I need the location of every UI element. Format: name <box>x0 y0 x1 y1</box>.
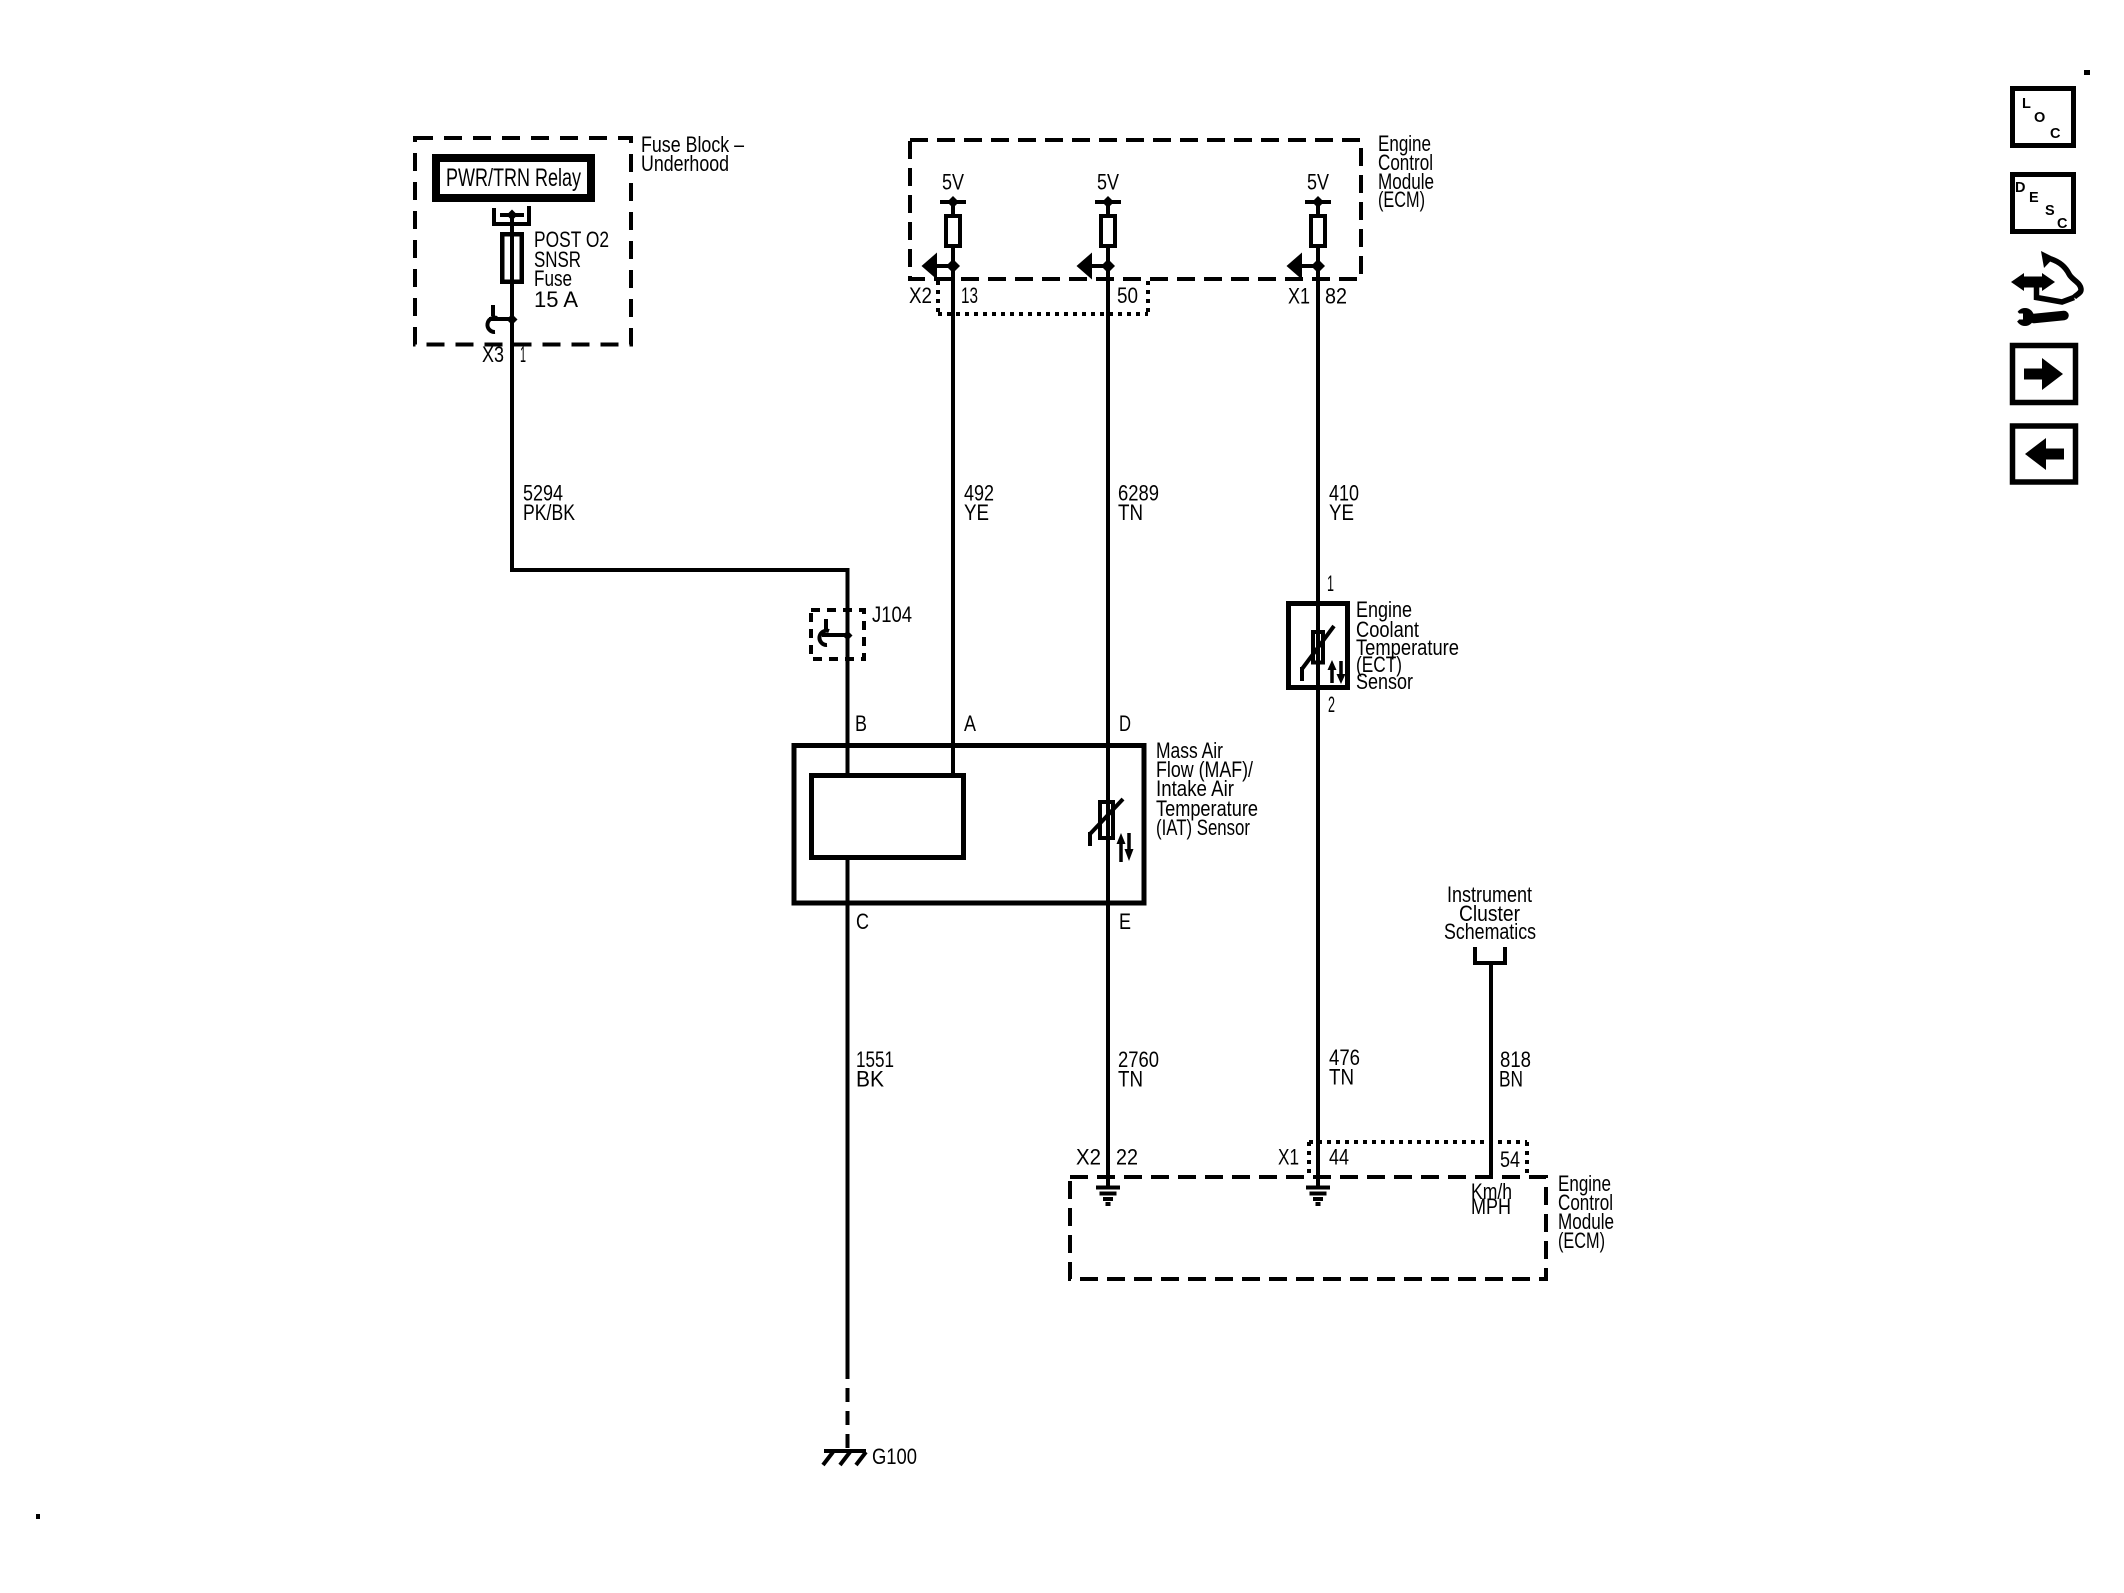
MAF IAT sensor outer box <box>794 746 1144 904</box>
wire label 6289 TN <box>1118 481 1159 526</box>
instrument cluster label <box>1444 882 1536 944</box>
svg-text:BK: BK <box>856 1067 884 1092</box>
wire label 492 YE <box>964 481 994 526</box>
wire label 410 YE <box>1329 481 1359 526</box>
wire R2 to junction <box>1106 248 1110 266</box>
svg-text:MPH: MPH <box>1471 1194 1511 1219</box>
connector X3 pin 1 labels <box>482 342 526 367</box>
MAF pin A label <box>964 711 976 736</box>
resistor R2 internal ECM <box>1101 216 1115 246</box>
svg-text:G100: G100 <box>872 1444 917 1469</box>
svg-text:YE: YE <box>964 500 989 525</box>
MAF pin E label <box>1119 909 1131 934</box>
svg-text:L: L <box>2022 96 2031 112</box>
DESC nav box <box>2013 175 2074 233</box>
svg-text:5V: 5V <box>1097 170 1119 195</box>
svg-text:Underhood: Underhood <box>641 151 729 176</box>
MAF pin C label <box>856 909 869 934</box>
svg-text:E: E <box>1119 909 1131 934</box>
svg-text:(IAT) Sensor: (IAT) Sensor <box>1156 815 1250 840</box>
5V supply 2 bar and node <box>1095 196 1121 214</box>
connector X1 pin 44 54 labels bottom <box>1278 1145 1520 1173</box>
wire label 2760 TN <box>1118 1047 1159 1092</box>
svg-text:44: 44 <box>1329 1145 1349 1170</box>
resistor R3 internal ECM <box>1311 216 1325 246</box>
ECT sensor pin 1 label <box>1327 571 1334 596</box>
svg-text:X1: X1 <box>1288 284 1310 309</box>
svg-text:1: 1 <box>1327 571 1334 596</box>
wire 5294 PK/BK run <box>510 568 848 608</box>
MAF IAT sensor label <box>1156 738 1258 840</box>
instrument cluster off-page bracket <box>1475 947 1505 963</box>
wire R1 to junction <box>951 248 955 266</box>
svg-text:(ECM): (ECM) <box>1558 1228 1605 1253</box>
svg-text:TN: TN <box>1118 500 1143 525</box>
ECT variable arrows <box>1328 660 1346 684</box>
wire 6289 TN / 2760 TN <box>1106 266 1110 1177</box>
ECT sensor label <box>1356 597 1459 694</box>
ECM bottom dashed box <box>1070 1177 1546 1279</box>
svg-text:YE: YE <box>1329 500 1354 525</box>
svg-text:X1: X1 <box>1278 1145 1299 1170</box>
5V supply 3 label <box>1307 170 1329 195</box>
svg-text:54: 54 <box>1500 1147 1520 1172</box>
ground pin 44 internal <box>1306 1177 1330 1204</box>
svg-text:O: O <box>2034 110 2045 126</box>
fuse block underhood dashed box <box>415 138 631 345</box>
svg-text:D: D <box>1119 711 1131 736</box>
terminal hook in J104 <box>819 619 852 645</box>
svg-text:BN: BN <box>1499 1067 1523 1092</box>
wire through J104 <box>846 608 850 773</box>
svg-text:D: D <box>2015 180 2025 196</box>
svg-text:1: 1 <box>520 342 526 367</box>
connector X2 pin labels top <box>909 283 1138 308</box>
svg-text:J104: J104 <box>872 602 912 627</box>
svg-text:Schematics: Schematics <box>1444 919 1536 944</box>
svg-text:(ECM): (ECM) <box>1378 187 1425 212</box>
svg-text:5V: 5V <box>1307 170 1329 195</box>
connector X1 dotted box bottom <box>1309 1142 1527 1175</box>
wire relay to fuse to X3 <box>510 215 514 570</box>
junction node wire 492 <box>946 259 960 273</box>
svg-text:2: 2 <box>1328 692 1335 717</box>
wire 410 YE / 476 TN <box>1316 266 1320 1177</box>
svg-text:TN: TN <box>1329 1065 1354 1090</box>
svg-text:TN: TN <box>1118 1067 1143 1092</box>
jump with wrench icon <box>2009 251 2081 326</box>
MAF pin B label <box>855 711 867 736</box>
svg-text:82: 82 <box>1325 284 1347 309</box>
connector X2 pin 22 labels bottom <box>1076 1145 1138 1170</box>
svg-text:PWR/TRN Relay: PWR/TRN Relay <box>446 164 581 192</box>
IAT variable arrows <box>1117 833 1134 862</box>
ECM top dashed box <box>910 140 1361 279</box>
ground G100 <box>823 1451 866 1465</box>
connector X1 pin labels top <box>1288 284 1347 309</box>
svg-text:X3: X3 <box>482 342 504 367</box>
5V supply 1 bar and node <box>940 196 966 214</box>
ground pin 22 internal <box>1096 1177 1120 1204</box>
svg-text:13: 13 <box>961 283 978 308</box>
wire 492 YE <box>951 266 955 773</box>
wire label 476 TN <box>1329 1045 1360 1090</box>
fuse value label <box>534 227 609 312</box>
resistor R1 internal ECM <box>946 216 960 246</box>
junction node wire 410 <box>1311 259 1325 273</box>
svg-text:S: S <box>2045 203 2055 219</box>
splice J104 dashed box <box>811 610 864 659</box>
page mark top right <box>2084 70 2090 75</box>
signal arrow 1 <box>922 253 954 280</box>
svg-text:A: A <box>964 711 976 736</box>
wire R3 to junction <box>1316 248 1320 266</box>
fuse POST O2 SNSR 15 A <box>502 234 522 282</box>
relay output terminal bracket <box>492 206 531 226</box>
page mark bottom left <box>36 1514 40 1519</box>
wire label 1551 BK <box>856 1047 894 1092</box>
ECT sensor box <box>1289 604 1348 688</box>
next arrow nav box <box>2013 346 2076 403</box>
wire 1551 BK from pin C <box>846 860 850 1379</box>
svg-text:C: C <box>856 909 869 934</box>
svg-text:E: E <box>2029 190 2039 206</box>
back arrow nav box <box>2013 426 2076 482</box>
svg-text:5V: 5V <box>942 170 964 195</box>
IAT thermistor <box>1090 799 1123 846</box>
svg-text:C: C <box>2057 216 2068 232</box>
svg-text:X2: X2 <box>1076 1145 1101 1170</box>
connector X2 dotted box top <box>938 281 1148 314</box>
Km/h MPH label <box>1471 1179 1512 1219</box>
svg-text:B: B <box>855 711 867 736</box>
dashed wire to G100 <box>846 1379 850 1450</box>
ECT sensor pin 2 label <box>1328 692 1335 717</box>
junction node wire 6289 <box>1101 259 1115 273</box>
signal arrow 3 <box>1287 253 1319 280</box>
relay PWR/TRN <box>436 158 591 198</box>
ECM top label <box>1378 131 1434 212</box>
MAF pin D label <box>1119 711 1131 736</box>
svg-text:X2: X2 <box>909 283 932 308</box>
fuse block label <box>641 132 745 176</box>
MAF inner element box <box>812 776 964 858</box>
LOC nav box <box>2013 89 2074 146</box>
svg-text:50: 50 <box>1117 283 1138 308</box>
G100 label <box>872 1444 917 1469</box>
ECT thermistor <box>1302 626 1334 681</box>
ECM bottom label <box>1558 1171 1614 1253</box>
svg-text:22: 22 <box>1116 1145 1138 1170</box>
5V supply 2 label <box>1097 170 1119 195</box>
wire 818 BN <box>1489 963 1493 1177</box>
5V supply 3 bar and node <box>1305 196 1331 214</box>
svg-text:15 A: 15 A <box>534 287 578 312</box>
wire label 5294 PK/BK <box>523 481 575 526</box>
signal arrow 2 <box>1077 253 1109 280</box>
5V supply 1 label <box>942 170 964 195</box>
terminal hook in fuse block <box>487 305 517 332</box>
svg-text:PK/BK: PK/BK <box>523 500 575 525</box>
wire label 818 BN <box>1499 1047 1531 1092</box>
svg-text:C: C <box>2050 126 2061 142</box>
J104 label <box>872 602 912 627</box>
svg-text:Sensor: Sensor <box>1356 669 1413 694</box>
